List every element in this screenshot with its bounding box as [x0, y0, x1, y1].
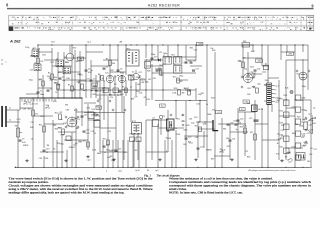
- svg-text:R47: R47: [211, 159, 214, 161]
- wire links: [18, 45, 311, 156]
- svg-text:R7: R7: [239, 17, 241, 19]
- transformer tap labels: [275, 85, 279, 104]
- capacitor C19: [185, 136, 192, 139]
- svg-text:680k: 680k: [97, 153, 101, 155]
- valve V3: [118, 75, 125, 82]
- svg-text:560: 560: [75, 128, 78, 130]
- svg-text:1M: 1M: [148, 79, 151, 81]
- resistor R1: [34, 56, 44, 63]
- chassis strip divider ticks: [22, 15, 301, 30]
- svg-text:5p: 5p: [236, 129, 238, 131]
- svg-text:0.01: 0.01: [287, 152, 291, 154]
- mains switch S3: [285, 156, 293, 160]
- svg-text:C27: C27: [313, 149, 316, 151]
- svg-text:R28: R28: [110, 70, 113, 72]
- svg-text:C17: C17: [154, 56, 157, 58]
- svg-text:0.01: 0.01: [181, 121, 185, 123]
- svg-text:R2: R2: [48, 72, 50, 74]
- valve V5: [243, 73, 256, 82]
- svg-text:0.02: 0.02: [196, 103, 200, 105]
- svg-text:270p: 270p: [25, 47, 29, 49]
- svg-text:R52: R52: [58, 127, 61, 129]
- svg-text:0.25: 0.25: [307, 133, 311, 135]
- svg-text:V1: V1: [77, 119, 80, 121]
- svg-text:e: e: [6, 62, 7, 64]
- svg-text:C79: C79: [184, 62, 187, 64]
- capacitor C31: [235, 122, 242, 125]
- svg-text:C1: C1: [40, 90, 42, 92]
- svg-text:C14: C14: [118, 148, 121, 150]
- svg-text:R52: R52: [109, 94, 112, 96]
- svg-text:L4: L4: [152, 28, 154, 30]
- ground gnd6: [194, 158, 197, 161]
- svg-text:1k: 1k: [181, 115, 183, 117]
- svg-text:V3: V3: [210, 28, 212, 30]
- svg-text:270p: 270p: [233, 120, 237, 122]
- svg-text:L4: L4: [249, 17, 251, 19]
- chassis earth rail: [15, 167, 310, 168]
- voltage label +245V: [243, 100, 249, 103]
- svg-text:R15: R15: [50, 62, 53, 64]
- coil L8: [174, 57, 182, 65]
- switch S2: [219, 149, 223, 153]
- svg-text:C19: C19: [188, 136, 191, 138]
- output transformer T1: [264, 83, 275, 105]
- svg-text:6: 6: [77, 17, 78, 19]
- svg-text:R33: R33: [120, 94, 123, 96]
- capacitor C17: [151, 56, 158, 59]
- svg-text:C9: C9: [22, 138, 24, 140]
- capacitor C10: [43, 148, 50, 154]
- svg-text:R47: R47: [201, 93, 204, 95]
- svg-text:22k: 22k: [289, 22, 292, 24]
- svg-text:R61: R61: [252, 73, 255, 75]
- svg-text:0.01: 0.01: [124, 152, 128, 154]
- svg-text:1k: 1k: [97, 81, 99, 83]
- svg-text:C22: C22: [93, 120, 96, 122]
- svg-text:560: 560: [242, 58, 245, 60]
- ground gnd7: [230, 158, 233, 161]
- volume control VR1: [15, 126, 26, 147]
- svg-text:18: 18: [180, 17, 182, 19]
- svg-text:R2: R2: [60, 112, 62, 114]
- svg-text:C36: C36: [22, 109, 25, 111]
- svg-text:C8: C8: [286, 17, 288, 19]
- svg-text:150p: 150p: [179, 76, 183, 78]
- terminal marks below rail: [106, 169, 122, 172]
- svg-text:5: 5: [275, 94, 276, 96]
- svg-text:25: 25: [46, 152, 48, 154]
- svg-text:10k: 10k: [102, 87, 105, 89]
- svg-text:47k: 47k: [239, 61, 242, 63]
- svg-text:1k: 1k: [277, 133, 279, 135]
- svg-text:C25: C25: [249, 118, 252, 120]
- svg-text:R58: R58: [250, 78, 253, 80]
- svg-text:560: 560: [158, 68, 161, 70]
- coil L7: [163, 55, 171, 64]
- svg-text:R15: R15: [103, 138, 106, 140]
- svg-text:C22: C22: [257, 68, 260, 70]
- svg-text:t.p.9: t.p.9: [155, 169, 159, 172]
- capacitor C15: [185, 60, 192, 63]
- capacitor C26: [156, 68, 163, 71]
- svg-text:C8: C8: [216, 28, 218, 30]
- svg-text:R12: R12: [17, 28, 20, 30]
- svg-text:R9: R9: [122, 86, 124, 88]
- svg-text:R2: R2: [160, 52, 162, 54]
- svg-text:C16: C16: [193, 60, 196, 62]
- svg-text:S1b: S1b: [46, 105, 49, 107]
- svg-text:L2: L2: [9, 120, 11, 122]
- resistor R27: [250, 132, 256, 140]
- svg-text:220k: 220k: [44, 158, 48, 160]
- svg-text:R21: R21: [195, 125, 198, 127]
- valve V1: [67, 117, 81, 127]
- svg-text:C63: C63: [307, 161, 310, 163]
- top cap connection V1: [64, 45, 74, 61]
- svg-text:C22: C22: [30, 70, 33, 72]
- svg-text:T2: T2: [303, 28, 305, 30]
- svg-text:90: 90: [258, 17, 260, 19]
- resistor R17: [173, 76, 183, 83]
- ground gnd3: [86, 155, 89, 158]
- svg-text:C5: C5: [93, 78, 95, 80]
- svg-text:R52: R52: [57, 143, 60, 145]
- svg-text:R5: R5: [68, 84, 70, 86]
- svg-text:18: 18: [84, 22, 86, 24]
- capacitor C16: [190, 60, 197, 63]
- svg-text:1k: 1k: [175, 128, 177, 130]
- capacitor C12: [83, 129, 90, 135]
- svg-text:L9: L9: [174, 64, 176, 66]
- svg-text:0.25: 0.25: [95, 105, 99, 107]
- svg-text:T2: T2: [29, 17, 31, 19]
- resistor R18: [174, 88, 181, 95]
- svg-text:L5: L5: [56, 58, 58, 60]
- chassis strip internal rule 2: [9, 24, 314, 26]
- svg-text:R40: R40: [173, 22, 176, 24]
- svg-text:220k: 220k: [301, 97, 305, 99]
- svg-text:R44: R44: [247, 157, 250, 159]
- svg-text:390: 390: [54, 79, 57, 81]
- svg-text:C83: C83: [66, 109, 69, 111]
- extra stage labels: [183, 144, 248, 153]
- svg-text:R28: R28: [61, 134, 64, 136]
- svg-text:R32: R32: [280, 110, 283, 112]
- svg-text:C83: C83: [86, 108, 89, 110]
- svg-text:0.01: 0.01: [146, 99, 150, 101]
- svg-text:R7: R7: [148, 28, 150, 30]
- svg-text:t.p.1: t.p.1: [275, 85, 279, 88]
- svg-text:T2: T2: [189, 22, 191, 24]
- svg-text:90: 90: [65, 22, 67, 24]
- svg-text:t.p.3: t.p.3: [87, 159, 91, 162]
- svg-text:t.p.3: t.p.3: [303, 141, 307, 144]
- svg-text:150p: 150p: [309, 120, 313, 122]
- svg-text:18: 18: [126, 17, 128, 19]
- coil L4: [34, 62, 41, 70]
- svg-text:6: 6: [301, 17, 302, 19]
- svg-text:A 262: A 262: [9, 39, 21, 44]
- voltage label +165V: [197, 42, 203, 45]
- switch S1a: [23, 101, 27, 105]
- pilot lamp PL1: [290, 90, 293, 93]
- svg-text:90: 90: [228, 17, 230, 19]
- svg-text:10k: 10k: [149, 61, 152, 63]
- svg-text:R33: R33: [280, 122, 283, 124]
- svg-text:R2: R2: [114, 84, 116, 86]
- svg-text:R58: R58: [212, 50, 215, 52]
- svg-text:2.2k: 2.2k: [38, 79, 42, 81]
- svg-text:T2: T2: [49, 17, 51, 19]
- svg-text:82: 82: [147, 170, 149, 172]
- svg-text:100p: 100p: [302, 86, 306, 88]
- svg-text:8: 8: [6, 3, 8, 8]
- svg-text:120k: 120k: [167, 138, 171, 140]
- capacitor C14: [115, 148, 122, 151]
- svg-text:C30: C30: [230, 122, 233, 124]
- ground gnd2: [64, 159, 67, 162]
- voltage label +62Va: [96, 106, 102, 109]
- diode MR1: [154, 58, 161, 61]
- svg-text:t.p.16: t.p.16: [135, 169, 140, 172]
- svg-text:100p: 100p: [163, 53, 167, 55]
- svg-text:1k: 1k: [55, 92, 57, 94]
- coil L6: [63, 67, 70, 74]
- resistor R6: [78, 82, 84, 89]
- svg-text:R40: R40: [197, 17, 200, 19]
- electrolytic C25: [249, 118, 259, 121]
- resistor R3: [39, 79, 45, 86]
- svg-text:C20: C20: [200, 146, 203, 148]
- svg-text:0.1: 0.1: [132, 72, 135, 74]
- svg-text:C18: C18: [281, 125, 284, 127]
- chassis strip right end detail: [307, 16, 314, 30]
- capacitor C1: [37, 90, 45, 96]
- svg-text:0.05: 0.05: [88, 72, 92, 74]
- svg-text:All voltages measured between: All voltages measured between points sho…: [249, 169, 296, 172]
- svg-text:IFT2: IFT2: [132, 121, 136, 123]
- svg-text:100p: 100p: [292, 133, 296, 135]
- svg-text:22k: 22k: [67, 28, 70, 30]
- svg-text:R21: R21: [106, 150, 109, 152]
- svg-text:R21: R21: [141, 79, 144, 81]
- svg-text:R2: R2: [158, 70, 160, 72]
- svg-text:R52: R52: [111, 160, 114, 162]
- svg-text:VR1: VR1: [15, 126, 19, 128]
- svg-text:150p: 150p: [151, 54, 155, 56]
- body text left column: [9, 177, 154, 195]
- svg-text:R47: R47: [40, 116, 43, 118]
- capacitor C11: [81, 114, 88, 117]
- svg-text:0.05: 0.05: [284, 100, 288, 102]
- chassis strip internal rule 1: [9, 20, 314, 22]
- svg-text:C63: C63: [247, 88, 250, 90]
- svg-text:50p: 50p: [62, 80, 65, 82]
- svg-text:R33: R33: [177, 134, 180, 136]
- svg-text:R14: R14: [83, 140, 86, 142]
- capacitor C7: [103, 66, 109, 69]
- svg-text:C22: C22: [160, 75, 163, 77]
- svg-text:C36: C36: [195, 137, 198, 139]
- resistor R14: [83, 140, 90, 147]
- svg-text:4: 4: [106, 170, 107, 172]
- svg-text:R27: R27: [250, 132, 253, 134]
- svg-text:R24: R24: [25, 145, 28, 147]
- svg-text:R15: R15: [280, 138, 283, 140]
- capacitor C9: [19, 138, 26, 144]
- svg-text:C18: C18: [131, 80, 134, 82]
- svg-text:6: 6: [128, 28, 129, 30]
- svg-text:47k: 47k: [75, 143, 78, 145]
- svg-text:FS1: FS1: [243, 41, 246, 43]
- svg-text:220k: 220k: [65, 62, 69, 64]
- svg-text:50p: 50p: [257, 83, 260, 85]
- IF transformer IFT1: [126, 48, 139, 66]
- svg-text:C18: C18: [74, 118, 77, 120]
- svg-text:C2: C2: [50, 88, 52, 90]
- svg-text:0.25: 0.25: [86, 133, 90, 135]
- header rule: [7, 8, 314, 9]
- labels above HT rail: [51, 41, 122, 44]
- svg-text:R7: R7: [160, 28, 162, 30]
- svg-text:0.02: 0.02: [251, 51, 255, 53]
- oscillator grid box: [103, 75, 134, 93]
- svg-text:R12: R12: [170, 28, 173, 30]
- svg-text:R7: R7: [209, 17, 211, 19]
- svg-text:680k: 680k: [299, 125, 303, 127]
- svg-text:C27: C27: [195, 68, 198, 70]
- svg-text:C31: C31: [157, 28, 160, 30]
- svg-text:R7: R7: [105, 17, 107, 19]
- svg-text:R21: R21: [33, 48, 36, 50]
- voltage label +62V: [160, 104, 166, 107]
- svg-text:18: 18: [207, 22, 209, 24]
- svg-text:0.25: 0.25: [107, 131, 111, 133]
- capacitor C2: [47, 88, 53, 91]
- svg-text:C4: C4: [313, 107, 315, 109]
- resistor R21: [195, 125, 202, 131]
- svg-text:120k: 120k: [172, 92, 176, 94]
- svg-text:150p: 150p: [91, 115, 95, 117]
- IF transformer IFT2: [132, 121, 142, 134]
- svg-text:C4: C4: [94, 133, 96, 135]
- svg-text:R7: R7: [296, 28, 298, 30]
- electrolytic C24: [247, 103, 263, 112]
- capacitor C21: [229, 138, 236, 141]
- terminal labels below earth rail: [135, 169, 159, 172]
- svg-text:C22: C22: [249, 72, 252, 74]
- svg-text:50p: 50p: [244, 69, 247, 71]
- svg-text:C47: C47: [138, 72, 141, 74]
- svg-text:V2: V2: [114, 76, 117, 78]
- capacitor C13: [103, 144, 110, 147]
- svg-text:C45: C45: [134, 150, 137, 152]
- voltage label +254V: [287, 52, 294, 56]
- svg-text:3: 3: [275, 90, 276, 92]
- svg-text:R44: R44: [30, 127, 33, 129]
- svg-text:47k: 47k: [110, 97, 113, 99]
- svg-text:C18: C18: [194, 117, 197, 119]
- dropper resistor column A: [280, 98, 289, 153]
- chassis strip left end block: [9, 26, 13, 30]
- capacitor C8: [119, 89, 125, 92]
- svg-text:C36: C36: [141, 82, 144, 84]
- chassis strip outline: [9, 15, 314, 31]
- svg-text:47: 47: [22, 17, 24, 19]
- smoothing choke terminal: [262, 63, 269, 72]
- svg-text:22k: 22k: [56, 22, 59, 24]
- svg-text:270p: 270p: [129, 133, 133, 135]
- svg-text:R28: R28: [31, 56, 34, 58]
- svg-text:C22: C22: [30, 122, 33, 124]
- svg-text:470: 470: [78, 141, 81, 143]
- resistor R10: [28, 108, 38, 116]
- svg-text:5p: 5p: [91, 70, 93, 72]
- svg-text:R10: R10: [58, 72, 61, 74]
- voltage label +88V: [78, 57, 84, 60]
- svg-text:5p: 5p: [305, 110, 307, 112]
- svg-text:t.p.11: t.p.11: [118, 169, 122, 172]
- svg-text:0.25: 0.25: [312, 118, 316, 120]
- svg-text:R21: R21: [188, 142, 191, 144]
- svg-text:R47: R47: [137, 84, 140, 86]
- svg-text:C52: C52: [121, 28, 124, 30]
- svg-text:1k: 1k: [277, 143, 279, 145]
- coil L5: [56, 58, 63, 67]
- svg-text:220k: 220k: [183, 130, 187, 132]
- svg-text:16: 16: [31, 138, 33, 140]
- svg-text:R10: R10: [28, 108, 31, 110]
- svg-text:L7: L7: [163, 55, 165, 57]
- svg-text:C4: C4: [301, 100, 303, 102]
- svg-text:C12: C12: [163, 63, 166, 65]
- svg-text:220k: 220k: [92, 149, 96, 151]
- svg-text:T2: T2: [136, 22, 138, 24]
- IFT2 trim boxes: [130, 137, 142, 142]
- svg-text:C31: C31: [295, 124, 298, 126]
- svg-text:C41: C41: [128, 75, 131, 77]
- svg-text:18: 18: [254, 17, 256, 19]
- svg-text:NOTE: In later sets, C86 is f: NOTE: In later sets, C86 is fitted insid…: [169, 191, 243, 195]
- resistor R26: [240, 126, 247, 133]
- svg-text:R24: R24: [250, 66, 253, 68]
- svg-text:C6: C6: [120, 68, 122, 70]
- header title A262 RECEIVER: [148, 3, 180, 7]
- svg-text:C31: C31: [105, 72, 108, 74]
- svg-text:5p: 5p: [301, 121, 303, 123]
- dropper resistor column B: [295, 95, 305, 160]
- svg-text:47: 47: [203, 22, 205, 24]
- resistor R16: [155, 68, 162, 75]
- svg-text:390: 390: [65, 105, 68, 107]
- mains dropper panel: [296, 153, 305, 161]
- capacitor C22: [254, 68, 261, 71]
- svg-text:C18: C18: [170, 128, 173, 130]
- svg-text:L4: L4: [34, 62, 36, 64]
- capacitor C6: [117, 68, 123, 74]
- svg-text:IFT1: IFT1: [126, 48, 130, 50]
- svg-text:R52: R52: [176, 119, 179, 121]
- svg-text:150p: 150p: [265, 80, 269, 82]
- svg-text:C74: C74: [34, 103, 37, 105]
- svg-text:R12: R12: [261, 22, 264, 24]
- svg-text:R7: R7: [169, 17, 171, 19]
- svg-text:R33: R33: [131, 98, 134, 100]
- svg-text:6: 6: [89, 17, 90, 19]
- svg-text:L1: L1: [9, 108, 11, 110]
- svg-text:47: 47: [69, 22, 71, 24]
